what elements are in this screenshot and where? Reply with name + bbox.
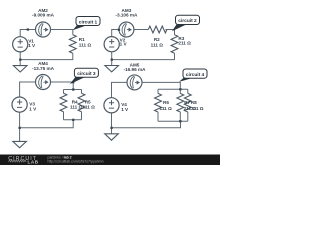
svg-text:211 Ω: 211 Ω [178, 40, 191, 45]
svg-text:circuit 4: circuit 4 [186, 72, 205, 78]
svg-text:http://circuitlab.com/c/fa7s7r: http://circuitlab.com/c/fa7s7rpyahmn [48, 160, 104, 164]
svg-text:-16.96 mA: -16.96 mA [124, 67, 147, 72]
svg-text:1 V: 1 V [120, 42, 128, 47]
svg-text:1 V: 1 V [28, 43, 36, 48]
svg-text:-9.009 mA: -9.009 mA [32, 13, 55, 18]
svg-text:R6: R6 [163, 100, 169, 105]
svg-text:R1: R1 [79, 37, 85, 42]
svg-text:1 V: 1 V [121, 107, 129, 112]
svg-text:111 Ω: 111 Ω [70, 104, 83, 109]
svg-text:R7: R7 [184, 100, 190, 105]
svg-text:circuit 2: circuit 2 [178, 18, 197, 24]
svg-text:1 V: 1 V [29, 107, 37, 112]
svg-text:-13.75 mA: -13.75 mA [32, 66, 55, 71]
svg-text:111 Ω: 111 Ω [151, 42, 164, 47]
svg-text:circuit 1: circuit 1 [79, 19, 98, 25]
svg-text:211 Ω: 211 Ω [82, 104, 95, 109]
svg-text:circuit 3: circuit 3 [77, 71, 96, 77]
svg-text:-3.106 mA: -3.106 mA [115, 13, 138, 18]
svg-text:R8: R8 [191, 100, 197, 105]
svg-text:111 Ω: 111 Ω [160, 106, 173, 111]
svg-text:LAB: LAB [28, 160, 39, 165]
svg-text:311 Ω: 311 Ω [191, 106, 204, 111]
svg-text:111 Ω: 111 Ω [79, 42, 92, 47]
svg-text:R2: R2 [154, 37, 160, 42]
